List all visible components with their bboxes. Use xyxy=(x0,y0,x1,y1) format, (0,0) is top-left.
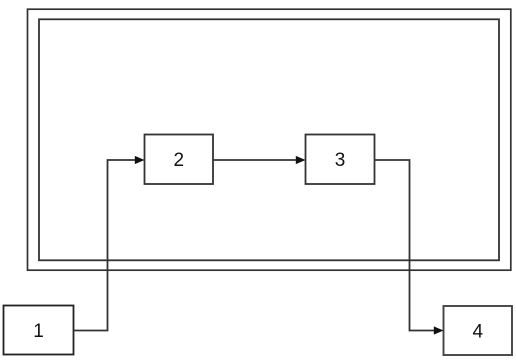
box 3 xyxy=(306,135,375,185)
box 1 xyxy=(4,306,74,355)
wire from box 3 to box 4 (arrow) xyxy=(375,160,444,335)
box 2 xyxy=(145,135,214,185)
wire from box 1 to box 2 (arrow) xyxy=(74,156,145,331)
wire from box 2 to box 3 (arrow) xyxy=(213,156,306,164)
svg-text:2: 2 xyxy=(174,150,185,171)
inner frame rectangle xyxy=(39,19,499,260)
svg-text:4: 4 xyxy=(473,321,484,342)
box 4 xyxy=(444,306,513,355)
outer frame rectangle xyxy=(28,9,511,270)
svg-text:3: 3 xyxy=(335,150,346,171)
svg-text:1: 1 xyxy=(33,321,44,342)
